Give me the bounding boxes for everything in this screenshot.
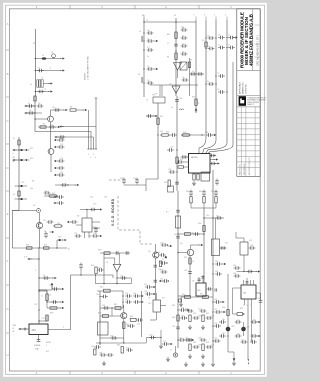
junction: [35, 91, 36, 92]
capacitor C25: [54, 108, 61, 112]
svg-text:C8: C8: [207, 36, 209, 38]
arrow mark: [25, 149, 30, 151]
resistor R56 inline: [227, 310, 229, 316]
capacitor C93: [193, 345, 200, 349]
svg-text:E: E: [7, 212, 9, 216]
wire rail x39 down: [38, 248, 40, 324]
svg-text:D3: D3: [33, 205, 35, 207]
wire left drop: [180, 297, 182, 302]
svg-text:U2: U2: [179, 64, 181, 66]
resistor R17 inline: [176, 157, 178, 163]
resistor R53: [202, 315, 204, 321]
bundle curve 2: [203, 140, 217, 154]
resistor R20: [181, 134, 191, 136]
M1 right pin a: [92, 221, 100, 223]
svg-text:A: A: [7, 22, 9, 26]
capacitor C89: [193, 316, 200, 320]
capacitor C58 inline: [115, 251, 117, 255]
wire merge y208: [191, 207, 216, 209]
inductor L4: [179, 109, 184, 110]
wire stub1: [190, 203, 192, 208]
svg-text:R4: R4: [167, 57, 169, 59]
wire rail x177 mid: [176, 96, 178, 191]
junction: [215, 83, 216, 84]
zone dividers left: [6, 50, 10, 333]
cap bars bottom: [37, 339, 41, 341]
resistor R46 inline x122: [121, 347, 123, 354]
U6 top stubs: [198, 277, 200, 283]
value labels secL: [182, 281, 260, 347]
wire XF1 right pin to loop: [48, 329, 71, 331]
right rows y281: [159, 280, 164, 282]
cap bars stub a: [197, 278, 200, 280]
cap row y336 mid: [235, 334, 242, 338]
outer border frame: [6, 5, 265, 374]
junction: [103, 283, 104, 284]
capacitor C16 right of 226: [218, 36, 225, 40]
wire y343 long: [96, 342, 146, 344]
svg-text:R25: R25: [44, 245, 47, 247]
capacitor C2: [38, 90, 45, 94]
column A stack: capacitor C88: [187, 309, 194, 313]
cap row y318: [180, 316, 187, 320]
pin top tick: [95, 97, 97, 99]
row y150 wire: [15, 149, 28, 151]
capacitor C98: [214, 339, 221, 343]
row y199 wire: [15, 198, 28, 200]
junction: [38, 309, 39, 310]
transformer T0: [37, 80, 43, 87]
svg-text:R50: R50: [182, 294, 185, 296]
svg-text:U3: U3: [169, 84, 171, 86]
wire row y308: [100, 307, 123, 309]
junction: [95, 274, 96, 275]
ground G12: [232, 361, 236, 365]
svg-text:C96: C96: [214, 299, 217, 301]
resistor R18: [168, 180, 170, 186]
cap row y342: [241, 340, 248, 344]
resistor R11 inline: [18, 191, 20, 196]
junction: [80, 274, 81, 275]
svg-text:M1: M1: [77, 216, 80, 218]
svg-text:C2: C2: [44, 89, 46, 91]
node label 215: [215, 17, 217, 21]
title col divider: [252, 9, 254, 71]
svg-text:C48: C48: [233, 273, 236, 275]
wire Q4 collector: [39, 213, 41, 222]
svg-text:1k: 1k: [13, 194, 15, 196]
row y186 wire: [15, 185, 28, 187]
wire y338: [100, 337, 124, 339]
terminal arrow: [48, 90, 53, 92]
capacitor CE5 electrolytic: [59, 239, 61, 241]
wire left rail x19: [18, 137, 20, 211]
wire row y106 left: [27, 105, 35, 107]
capacitor C19 bridging 215-226: [218, 74, 225, 78]
wire branch y234: [178, 233, 204, 235]
svg-text:R30: R30: [91, 265, 94, 267]
filter box FL6: [240, 242, 248, 255]
wire J2 lead: [175, 346, 177, 353]
svg-text:C8: C8: [217, 89, 219, 91]
transistor Q1: [52, 54, 56, 58]
svg-text:C64: C64: [102, 305, 105, 307]
capacitor CE1 electrolytic: [21, 149, 23, 151]
svg-text:XF1: XF1: [32, 330, 37, 332]
resistor R7 inline: [34, 96, 36, 101]
svg-text:45M15A: 45M15A: [34, 344, 41, 347]
svg-text:IF: IF: [13, 328, 15, 330]
junction box JB1: [153, 97, 165, 103]
junction: [203, 217, 204, 218]
svg-text:R17: R17: [180, 159, 183, 161]
wire Q6 collector arrow: [191, 245, 200, 249]
svg-text:C17: C17: [43, 220, 46, 222]
capacitor C85: [126, 348, 133, 352]
svg-text:R43: R43: [126, 324, 129, 326]
capacitor C8: [147, 67, 154, 71]
terminal arrow Q5 top: [168, 245, 173, 247]
junction: [38, 277, 39, 278]
svg-text:10: 10: [49, 295, 51, 297]
capacitor C62 inline: [154, 264, 158, 266]
node label 205: [205, 17, 207, 21]
capacitor C64 inline: [176, 235, 180, 237]
svg-text:C70: C70: [149, 335, 152, 337]
wire CE9 stubs: [243, 322, 245, 327]
capacitor C80: [103, 306, 110, 310]
resistor R41: [115, 307, 121, 310]
svg-text:C74: C74: [172, 326, 175, 328]
svg-text:C73: C73: [181, 316, 184, 318]
capacitor CE6 electrolytic: [51, 284, 53, 286]
svg-text:10: 10: [158, 252, 160, 254]
svg-text:R19: R19: [192, 97, 195, 99]
svg-text:R40: R40: [100, 287, 103, 289]
wire corner up x57: [56, 240, 58, 248]
wire FL6 bottom: [243, 255, 245, 272]
capacitor C81: [136, 318, 143, 322]
junction: [38, 247, 39, 248]
svg-text:1n: 1n: [43, 275, 45, 277]
capacitor C95: [206, 345, 213, 349]
svg-text:C53: C53: [42, 318, 45, 320]
capacitor C60: [97, 268, 104, 272]
svg-text:C46: C46: [215, 271, 218, 273]
resistor R38 inline: [46, 294, 48, 301]
wire left chain: [103, 258, 105, 284]
wire rail x178 long: [177, 191, 179, 296]
svg-text:R9: R9: [43, 124, 45, 126]
svg-text:C13: C13: [60, 158, 63, 160]
wire drop to audio rail: [95, 275, 97, 284]
wire Q7 emitter: [123, 319, 125, 343]
svg-text:C25: C25: [120, 276, 123, 278]
svg-text:C49: C49: [174, 234, 177, 236]
svg-text:C90: C90: [198, 309, 201, 311]
value labels secE: [120, 95, 183, 185]
svg-text:1k: 1k: [30, 84, 32, 86]
svg-text:C12: C12: [60, 144, 63, 146]
wire rail x161: [160, 293, 162, 344]
junction: [215, 75, 216, 76]
node label 196: [195, 17, 197, 21]
junction: [201, 134, 202, 135]
svg-text:1: 1: [46, 345, 47, 347]
resistor R10 inline: [18, 140, 20, 145]
IC pins bottom: [194, 173, 198, 174]
cap CE3: [21, 185, 23, 187]
terminal arrow: [154, 40, 159, 42]
svg-text:C45: C45: [215, 261, 218, 263]
svg-text:5: 5: [243, 305, 244, 307]
capacitor C45b: [220, 246, 227, 250]
capacitor C24: [28, 111, 35, 115]
wire stub3: [215, 203, 217, 208]
terminal end: [195, 111, 196, 112]
capacitor C42: [210, 162, 217, 166]
resistor R39b inline: [46, 315, 48, 321]
capacitor C38: [122, 178, 126, 185]
jack J2: [173, 353, 177, 357]
pin end feet: [87, 148, 97, 150]
svg-text:1n: 1n: [28, 103, 30, 105]
filter box FL7: [153, 300, 161, 312]
hybrid block U4: [180, 62, 187, 70]
junction: [215, 37, 216, 38]
junction: [205, 48, 206, 49]
svg-text:4: 4: [225, 15, 226, 17]
svg-text:C38: C38: [120, 178, 123, 180]
electrolytic CE8: [226, 327, 231, 332]
terminal arrow left: [18, 328, 23, 330]
capacitor C43: [215, 179, 219, 186]
resistor R9: [40, 126, 46, 128]
capacitor C68 inline: [188, 271, 192, 273]
svg-text:T1: T1: [99, 320, 101, 322]
wire rail x178 lower: [177, 296, 179, 348]
resistor R39: [50, 307, 57, 309]
inductor L1: [142, 36, 143, 42]
junction: [34, 105, 35, 106]
logo black mark: [239, 96, 246, 106]
filter box FL5: [212, 239, 220, 256]
capacitor C39: [181, 155, 188, 159]
svg-text:R51: R51: [200, 294, 203, 296]
capacitor C12: [181, 36, 188, 40]
cap row y287: [145, 285, 152, 289]
terminal arrow: [24, 105, 29, 107]
capacitor C7: [147, 48, 154, 52]
wire rail x177: [175, 18, 177, 96]
svg-text:45M: 45M: [13, 325, 17, 327]
junction rail177 top: [175, 21, 176, 22]
svg-text:Q7: Q7: [119, 310, 121, 312]
resistor R42: [103, 315, 109, 318]
resistor R22: [48, 195, 58, 197]
terminal arrow: [98, 208, 103, 210]
wire rail x226: [226, 20, 228, 143]
cap row y310: [179, 308, 186, 312]
junction: [123, 342, 124, 343]
svg-text:DESCRIPTION QTY: DESCRIPTION QTY: [249, 157, 251, 175]
svg-text:C40: C40: [206, 215, 209, 217]
resistor R36b: [185, 233, 191, 236]
svg-text:C38: C38: [205, 132, 208, 134]
wire row y127: [38, 126, 56, 128]
svg-text:L2: L2: [42, 55, 44, 57]
zone divider top x=199: [198, 5, 200, 9]
svg-text:C61: C61: [125, 293, 128, 295]
column B stack: capacitor C90: [200, 309, 207, 313]
svg-text:C51: C51: [34, 304, 37, 306]
stub 1 cap: [189, 190, 193, 197]
ground G11: [211, 362, 215, 366]
svg-text:C68: C68: [99, 353, 102, 355]
svg-text:2: 2: [13, 153, 14, 155]
wire rail x189.5: [189, 58, 191, 96]
loop wire y275: [71, 275, 113, 330]
ground G3: [102, 361, 106, 365]
capacitor C37 inline: [175, 181, 179, 183]
capacitor C23: [37, 104, 44, 108]
wire top rail: [144, 21, 196, 23]
capacitor C61: [120, 276, 127, 280]
row y302: [47, 301, 61, 303]
svg-text:DRG No. 800-45 SHT 1 OF 1: DRG No. 800-45 SHT 1 OF 1: [257, 34, 260, 66]
transistor Q4: [36, 222, 42, 228]
VCO dashed boundary top: [109, 179, 126, 181]
wire rail y291: [97, 290, 115, 292]
capacitor C27: [58, 138, 65, 142]
svg-text:C67: C67: [91, 346, 94, 348]
svg-text:C71: C71: [163, 341, 166, 343]
capacitor C63 inline: [154, 279, 158, 281]
terminal arrow: [48, 82, 53, 84]
capacitor C15 bridging 205-215: [208, 36, 215, 40]
junction: [38, 258, 39, 259]
svg-text:10: 10: [192, 261, 194, 263]
row y147: terminal arrow: [54, 146, 59, 148]
terminal arrow: [75, 184, 80, 186]
wire y297: [181, 296, 213, 298]
wire FL5 top: [215, 218, 217, 239]
wire main rail x35: [34, 96, 36, 132]
capacitor C26: [49, 125, 56, 129]
svg-text:H: H: [6, 353, 8, 357]
arrow mark: [25, 159, 30, 161]
svg-text:R33: R33: [186, 191, 189, 193]
resistor R40: [104, 289, 111, 292]
wire corner to lower: [146, 179, 158, 191]
svg-text:7: 7: [250, 305, 251, 307]
svg-text:FL2: FL2: [249, 240, 252, 242]
zone labels left A-H: [6, 22, 8, 357]
wire FL7 bottom: [150, 312, 156, 320]
wire x251.5 drop: [251, 305, 253, 342]
title block outline: [237, 9, 260, 177]
wire x112 drop: [111, 308, 113, 316]
wire U8 feedback loop: [233, 288, 242, 314]
capacitor C5: [147, 31, 154, 35]
wire bottom row: [89, 235, 91, 237]
svg-text:C98: C98: [214, 323, 217, 325]
resistor R48 inline: [177, 315, 179, 321]
capacitor C20: [208, 82, 215, 86]
svg-text:4p: 4p: [182, 36, 184, 38]
capacitor C29: [58, 159, 65, 163]
svg-text:C29: C29: [160, 243, 163, 245]
junction: [176, 149, 177, 150]
capacitor C84: [94, 345, 101, 349]
arrow mark: [12, 149, 17, 151]
svg-text:C69: C69: [126, 348, 129, 350]
junction: [35, 58, 36, 59]
svg-text:U6: U6: [192, 281, 194, 283]
wire FL7 top: [155, 293, 157, 300]
svg-text:C18: C18: [58, 237, 61, 239]
capacitor C86: [149, 336, 156, 340]
svg-text:Q5: Q5: [148, 251, 150, 253]
cap row y296.5: [101, 295, 108, 299]
svg-text:C31: C31: [160, 279, 163, 281]
junction: [205, 37, 206, 38]
logo side text: [247, 96, 267, 106]
svg-text:J2: J2: [170, 350, 172, 352]
capacitor C6: [147, 39, 154, 43]
wire to pin: [76, 109, 84, 111]
M1 bottom pins: [84, 232, 86, 238]
value labels secD: [13, 103, 72, 196]
column B2 stack: capacitor C94: [200, 338, 207, 342]
resistor R21b: [178, 166, 184, 168]
svg-text:R52: R52: [193, 313, 196, 315]
choke L5 inline: [176, 216, 181, 228]
connector pin line 2: [90, 132, 92, 150]
junction: [243, 313, 244, 314]
right col rules: [255, 25, 261, 57]
svg-text:R5: R5: [202, 40, 204, 42]
svg-text:C92: C92: [185, 338, 188, 340]
resistor R45: [94, 349, 96, 355]
capacitor C99b: [247, 270, 254, 274]
resistor R51: [203, 296, 209, 299]
cap row y264: [215, 262, 222, 266]
inner border frame: [9, 9, 260, 371]
diode D4: [50, 231, 55, 233]
wire Q4 emitter: [39, 229, 41, 248]
svg-text:1n: 1n: [41, 296, 43, 298]
wire row y91.5: [35, 91, 49, 93]
svg-text:C1: C1: [38, 68, 40, 70]
wire rail x213 long: [212, 170, 214, 362]
svg-text:4: 4: [95, 157, 96, 159]
cap row y344: [162, 342, 169, 346]
capacitor C91: [206, 316, 213, 320]
capacitor C52: [90, 208, 97, 212]
transistor Q7: [121, 313, 127, 319]
wire y185 lower: [124, 184, 146, 186]
wire branch corner y291: [39, 291, 47, 294]
svg-text:C39: C39: [133, 178, 136, 180]
junction: [203, 233, 204, 234]
wire input feed: [104, 253, 115, 258]
capacitor C34 inline: [175, 98, 179, 100]
capacitor C13: [181, 44, 188, 48]
right rows y255: [159, 253, 166, 257]
capacitor C39: [135, 178, 139, 185]
resistor R25: [44, 247, 50, 249]
